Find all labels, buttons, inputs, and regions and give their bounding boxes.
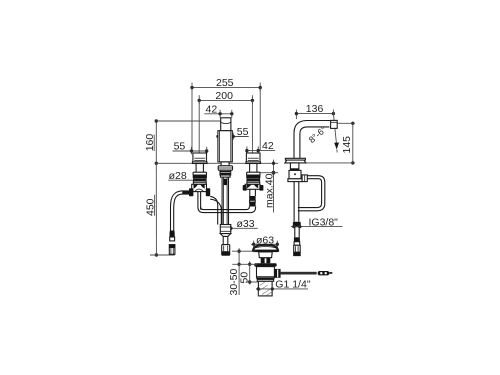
left valve rings <box>193 181 206 184</box>
spout outlet side <box>331 120 338 128</box>
dim 42 right handle <box>245 140 275 154</box>
extension line 200 left <box>198 100 200 152</box>
svg-text:55: 55 <box>174 141 186 153</box>
svg-text:42: 42 <box>206 103 218 115</box>
drain body <box>257 267 275 278</box>
spout neck <box>221 162 229 166</box>
right T side nuts <box>243 185 264 191</box>
hose left valve to center <box>210 196 221 224</box>
left T side nuts <box>189 188 210 196</box>
hose left valve to left <box>171 191 190 231</box>
dim G1 1/4 <box>256 279 311 296</box>
ref line hose end bottom <box>150 254 175 256</box>
fitting taper <box>220 234 230 237</box>
drain flange <box>254 263 276 266</box>
right valve cap <box>246 153 260 162</box>
crossover pipe <box>198 207 250 213</box>
dim 136 <box>295 103 335 119</box>
SIDE-VIEW <box>285 103 355 255</box>
right valve down tube <box>250 189 256 196</box>
spout escutcheon <box>218 166 232 170</box>
dim 42 top <box>204 103 233 117</box>
side shank nut <box>293 222 301 228</box>
spout tube front <box>221 118 231 131</box>
ref line escutcheon level <box>156 162 278 164</box>
spout shank nuts <box>220 170 231 177</box>
left valve flange <box>192 162 207 164</box>
drain neck <box>259 252 273 263</box>
dim dia63 <box>251 234 279 247</box>
svg-text:55: 55 <box>237 126 249 138</box>
svg-text:200: 200 <box>215 90 233 102</box>
side neck <box>290 163 299 171</box>
ref body bottom <box>246 281 259 283</box>
side port <box>302 175 307 182</box>
svg-text:136: 136 <box>306 103 324 115</box>
loop pipe <box>298 176 325 211</box>
dim max.40 <box>260 160 279 213</box>
left T bottom tube <box>198 192 201 210</box>
svg-text:IG3/8": IG3/8" <box>309 216 339 228</box>
right valve T body <box>245 184 260 189</box>
dim 450 left <box>144 163 158 256</box>
DIMENSIONS-TOP <box>144 77 278 257</box>
side lower tube <box>295 227 299 237</box>
ref line spout top <box>156 120 220 122</box>
svg-text:145: 145 <box>341 136 353 154</box>
center supply tube lower <box>223 236 228 244</box>
side body <box>288 170 302 181</box>
svg-text:max.40: max.40 <box>263 173 275 208</box>
extension line 255 right <box>259 88 261 151</box>
ref under cap <box>232 250 255 252</box>
dim dia33 <box>220 218 257 232</box>
spout supply tube <box>222 177 228 224</box>
spout arc side <box>294 121 337 159</box>
dim 55 left handle <box>173 141 209 155</box>
dim 30-50 <box>228 248 241 295</box>
dim 255 <box>190 77 262 91</box>
center hose end <box>222 245 230 256</box>
side hose end <box>294 237 301 255</box>
drain bottom flange <box>257 278 275 282</box>
angle leader <box>333 110 339 153</box>
right valve elbow <box>247 207 256 213</box>
drain cap <box>252 245 278 252</box>
dia33 fitting <box>220 225 230 234</box>
svg-text:G1 1/4": G1 1/4" <box>275 279 311 291</box>
ref flange bottom <box>232 263 257 265</box>
svg-text:42: 42 <box>262 140 274 152</box>
dim 200 <box>198 90 255 104</box>
left valve base nut <box>193 172 207 181</box>
dim 160 left <box>144 119 158 165</box>
left hose end <box>169 231 175 255</box>
pop-up rod <box>281 271 333 275</box>
dim 145 <box>306 122 355 165</box>
left valve stem <box>196 164 203 173</box>
drain tailpiece <box>258 281 272 296</box>
svg-text:255: 255 <box>216 77 234 89</box>
right valve flange <box>246 162 261 164</box>
label dia28 <box>168 170 194 182</box>
svg-text:ø33: ø33 <box>237 218 255 230</box>
dim IG3/8 <box>291 216 342 228</box>
right valve stem <box>250 164 257 173</box>
drain side port <box>274 269 280 278</box>
spout body front <box>218 131 232 162</box>
extension line 255 left <box>191 88 193 152</box>
side shank <box>294 182 299 222</box>
extension line 200 right <box>251 100 253 152</box>
dim 55 spout <box>216 126 248 140</box>
dim 50 <box>239 261 252 284</box>
right valve crimp <box>249 196 255 207</box>
DRAIN <box>228 234 332 296</box>
left valve T body <box>192 184 207 191</box>
left valve cap <box>193 153 207 162</box>
side escutcheon <box>285 158 306 163</box>
FRONT-VIEW <box>169 118 263 255</box>
right valve rings <box>247 181 260 184</box>
right valve base nut <box>246 172 260 181</box>
